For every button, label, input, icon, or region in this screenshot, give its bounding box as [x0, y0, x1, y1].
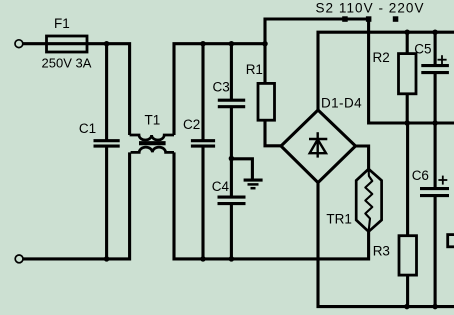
node C1 bottom junction	[104, 256, 110, 262]
wire riser to S2 and S2 feed	[265, 19, 369, 44]
wire R2 top lead	[406, 32, 409, 53]
bridge rectifier D1-D4	[281, 110, 356, 183]
wire T1 right riser and top rail	[174, 44, 265, 135]
wire bridge top riser and positive rail	[318, 32, 454, 110]
svg-text:R1: R1	[246, 62, 263, 77]
wire S2 pole drop and mid rail	[369, 21, 454, 123]
transformer T1 primary winding	[130, 135, 174, 140]
transformer T1 core	[139, 141, 166, 145]
wire C5 bottom lead	[434, 73, 437, 123]
svg-text:D1-D4: D1-D4	[321, 96, 362, 111]
wire C6 bottom lead	[434, 196, 437, 307]
wire fuse to T1 primary left	[87, 44, 130, 135]
wire R3 top lead	[406, 123, 409, 236]
wire C2 bottom lead	[201, 146, 204, 259]
switch S2 pole contact	[366, 16, 372, 22]
node R2 top	[404, 29, 410, 35]
wire C3 to C4	[230, 107, 233, 197]
svg-text:C1: C1	[79, 121, 96, 136]
node ground junction	[229, 156, 235, 162]
component box cut at right edge	[448, 235, 454, 247]
node C3 top	[229, 41, 235, 47]
node C5 top	[432, 29, 438, 35]
svg-text:TR1: TR1	[326, 211, 352, 226]
wire bottom segment A to T1 secondary left	[23, 152, 129, 259]
wire bridge right to TR1	[356, 146, 369, 169]
wire C1 top lead	[105, 44, 108, 141]
wire C6 top lead	[434, 123, 437, 189]
svg-text:R2: R2	[373, 50, 390, 65]
wire T1 secondary right drop and bottom segment B	[174, 152, 369, 259]
ground	[244, 180, 263, 188]
node C2 top	[200, 41, 206, 47]
wire terminal to fuse	[23, 42, 47, 45]
capacitor C3	[218, 100, 245, 107]
wire C5 top lead	[434, 32, 437, 65]
svg-text:F1: F1	[54, 16, 70, 31]
svg-text:T1: T1	[145, 112, 161, 127]
wire C1 bottom lead	[105, 146, 108, 259]
wire R3 bottom lead	[406, 275, 409, 307]
transformer T1 secondary winding	[131, 147, 174, 152]
wire R1 bottom lead to bridge	[265, 120, 281, 146]
capacitor C4	[218, 197, 246, 204]
node R3 bottom	[404, 304, 410, 310]
svg-text:C4: C4	[212, 179, 230, 194]
resistor R2	[399, 54, 417, 94]
switch S2 contact 1	[342, 16, 348, 22]
node R1 top junction	[262, 41, 268, 47]
wire C2 top lead	[201, 44, 204, 141]
svg-text:C2: C2	[183, 117, 200, 132]
node C6 bottom	[432, 304, 438, 310]
thermistor TR1	[356, 169, 381, 232]
fuse F1	[47, 36, 88, 52]
capacitor C6	[420, 189, 449, 196]
capacitor C2	[191, 141, 215, 146]
svg-text:250V 3A: 250V 3A	[42, 56, 92, 71]
svg-text:C3: C3	[213, 80, 230, 95]
node C5 bottom	[432, 120, 438, 126]
wire C3 top lead	[230, 44, 233, 100]
wire R2 bottom lead	[406, 94, 409, 123]
wire ground branch	[231, 159, 252, 180]
terminal bottom-left input	[15, 255, 23, 263]
bridge diode symbol	[309, 132, 327, 157]
resistor R1	[258, 83, 275, 120]
node C4 bottom	[229, 256, 235, 262]
plus sign C5	[438, 55, 447, 64]
wire C4 bottom lead	[230, 204, 233, 259]
wire bridge bottom drop and negative rail	[318, 183, 454, 307]
node R2 bottom	[404, 120, 410, 126]
plus sign C6	[438, 176, 447, 185]
wire R1 top lead	[263, 44, 266, 84]
svg-text:S2 110V - 220V: S2 110V - 220V	[316, 1, 425, 16]
node C1 top junction	[104, 41, 110, 47]
resistor R3	[399, 236, 417, 275]
capacitor C5	[421, 66, 449, 73]
switch S2 contact 2	[393, 16, 399, 22]
svg-text:C6: C6	[412, 168, 429, 183]
svg-text:C5: C5	[414, 41, 431, 56]
terminal top-left input	[15, 40, 23, 48]
svg-text:R3: R3	[373, 244, 390, 259]
node C2 bottom	[200, 256, 206, 262]
capacitor C1	[94, 141, 120, 146]
